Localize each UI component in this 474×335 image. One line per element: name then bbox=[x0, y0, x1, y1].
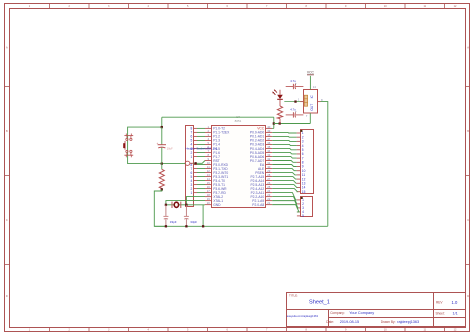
svg-text:21: 21 bbox=[267, 201, 271, 205]
svg-text:Sheet:: Sheet: bbox=[436, 311, 445, 315]
wire crystal horizontal and GND drop bbox=[166, 205, 205, 227]
wire VCC branch to oscillator bbox=[274, 123, 311, 125]
connector J2 header 15 pin bbox=[300, 130, 313, 194]
wire VCC rail to U? pin40 bbox=[272, 117, 274, 128]
svg-text:1: 1 bbox=[191, 191, 193, 195]
junction reset top bbox=[161, 126, 163, 128]
svg-text:VCC: VCC bbox=[307, 70, 315, 74]
svg-text:C: C bbox=[467, 219, 469, 222]
svg-text:15: 15 bbox=[302, 190, 306, 194]
svg-text:+: + bbox=[157, 141, 159, 145]
svg-text:GND: GND bbox=[213, 203, 221, 207]
wire oscillator vcc pin bbox=[309, 76, 311, 90]
wire VCC rail top bbox=[162, 116, 274, 118]
wires U? P2.3-P2.0 to J3 bbox=[272, 193, 299, 212]
resistor R? reset pulldown bbox=[159, 164, 164, 190]
U? right pin names bbox=[250, 127, 265, 207]
svg-text:D: D bbox=[467, 295, 469, 298]
U? left pin names bbox=[213, 127, 230, 207]
wire oscillator enable net bbox=[284, 101, 303, 103]
svg-text:1.0: 1.0 bbox=[452, 300, 458, 305]
junction crystal left bbox=[165, 204, 167, 206]
capacitor C? 33pF left bbox=[163, 205, 176, 227]
junction RST bbox=[194, 162, 196, 164]
svg-text:P2.0-A8: P2.0-A8 bbox=[252, 203, 264, 207]
wire rail riser to oscillator out bbox=[321, 102, 328, 227]
crystal X? oscillator bbox=[172, 202, 181, 208]
svg-text:Your Company: Your Company bbox=[349, 311, 374, 315]
wire reset loop left bbox=[128, 117, 186, 163]
J2 pin stubs and numbers bbox=[297, 131, 306, 194]
junction rail cap right bbox=[185, 225, 187, 227]
svg-text:33pF: 33pF bbox=[190, 220, 197, 224]
svg-text:OUT: OUT bbox=[310, 104, 314, 111]
switch S? push button bbox=[123, 134, 133, 158]
svg-text:20: 20 bbox=[207, 201, 211, 205]
connector J1 header left of MCU bbox=[186, 126, 194, 207]
svg-text:Header-Sockets8M_1x1: Header-Sockets8M_1x1 bbox=[186, 147, 219, 151]
svg-text:Sheet_1: Sheet_1 bbox=[309, 299, 330, 305]
capacitor C? 33pF right bbox=[184, 205, 197, 227]
IC U? crystal oscillator module bbox=[298, 85, 323, 118]
wire XTAL1 to crystal bbox=[166, 201, 205, 205]
capacitor C? reset 10uF bbox=[157, 127, 174, 164]
LED D? bbox=[272, 89, 283, 99]
svg-text:rajdeepj1363: rajdeepj1363 bbox=[397, 320, 419, 324]
junction VCC branch bbox=[273, 122, 275, 124]
junction LED resistor bottom bbox=[279, 122, 281, 124]
svg-text:TITLE:: TITLE: bbox=[289, 294, 298, 298]
svg-text:D: D bbox=[6, 295, 8, 298]
U? left pin stubs and pin numbers 1-20 bbox=[205, 125, 212, 205]
IC U? 8051 microcontroller body bbox=[212, 115, 266, 207]
svg-text:10uF: 10uF bbox=[167, 146, 173, 150]
svg-text:easyeda.com/rajdeepj1363: easyeda.com/rajdeepj1363 bbox=[287, 314, 319, 318]
wire oscillator gnd pin bbox=[309, 113, 311, 123]
title block bbox=[287, 293, 466, 327]
power flag VCC bbox=[307, 70, 315, 75]
J3 pin stubs and numbers bbox=[297, 198, 304, 218]
U? right pin stubs and pin numbers 40-21 bbox=[266, 125, 273, 205]
wires J1 to U? bbox=[197, 128, 205, 192]
wire ground rail bottom bbox=[154, 225, 327, 227]
svg-text:Company:: Company: bbox=[330, 311, 345, 315]
svg-text:1/1: 1/1 bbox=[453, 311, 458, 315]
junction crystal right bbox=[185, 204, 187, 206]
wire resistor to ground rail bbox=[154, 189, 166, 226]
connector J3 header 5 pin bbox=[301, 197, 313, 217]
wire RST net bbox=[194, 161, 206, 164]
junction reset bottom bbox=[161, 162, 163, 164]
junction enable net bbox=[294, 100, 296, 102]
J1 pin stubs bbox=[194, 128, 197, 192]
wires U? P0/EA/ALE/PSEN/P2 to J2 bbox=[272, 132, 297, 191]
svg-text:8051: 8051 bbox=[235, 119, 242, 123]
capacitor C? 4.7u top bbox=[286, 79, 304, 89]
svg-text:33pF: 33pF bbox=[170, 220, 177, 224]
wire XTAL2 to crystal bbox=[186, 197, 205, 205]
svg-text:5: 5 bbox=[302, 214, 304, 218]
capacitor C? 4.7u bottom bbox=[286, 108, 304, 118]
svg-text:Date:: Date: bbox=[326, 320, 334, 324]
junction rail gnd bbox=[202, 225, 204, 227]
resistor R? LED bbox=[277, 99, 282, 123]
svg-text:C: C bbox=[6, 219, 8, 222]
svg-text:1: 1 bbox=[191, 155, 193, 159]
junction resistor bottom bbox=[161, 188, 163, 190]
connector P? single pin socket at RST bbox=[185, 147, 218, 166]
svg-text:2019-08-15: 2019-08-15 bbox=[340, 320, 359, 324]
svg-text:REV: REV bbox=[436, 301, 443, 305]
junction rail cap left bbox=[165, 225, 167, 227]
svg-text:Drawn By:: Drawn By: bbox=[381, 320, 396, 324]
